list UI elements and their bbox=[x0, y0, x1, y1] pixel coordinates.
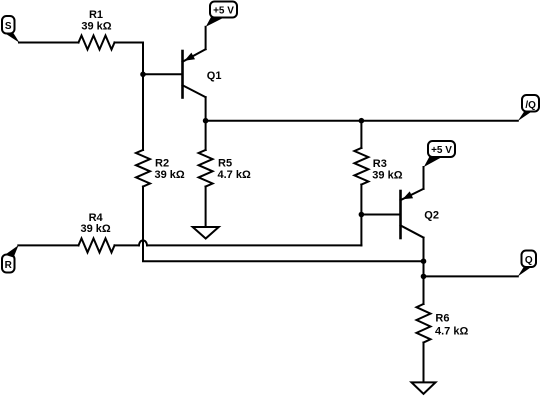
wire to Q2 base bbox=[361, 214, 400, 216]
svg-text:R2: R2 bbox=[155, 158, 169, 170]
wire riser R4 line to Q2 base junction bbox=[360, 215, 362, 246]
svg-text:/Q: /Q bbox=[525, 100, 536, 111]
wire hop over vertical wire bbox=[139, 240, 147, 245]
wire Q2 emitter to +5V bbox=[423, 167, 425, 189]
transistor Q2 (PNP) bbox=[401, 189, 424, 238]
wire R to R4 bbox=[18, 244, 78, 246]
svg-text:R: R bbox=[5, 260, 13, 271]
resistor R3 bbox=[354, 148, 368, 185]
node Q (output flag) bbox=[518, 251, 536, 277]
wire Q1 collector down to /Q node bbox=[205, 97, 207, 121]
wire Q1 emitter to +5V bbox=[205, 27, 207, 49]
wire R6 to ground bbox=[423, 343, 425, 383]
svg-text:+5 V: +5 V bbox=[431, 145, 452, 156]
wire R4 to hop bbox=[115, 244, 140, 246]
junction Q net bbox=[421, 274, 427, 280]
svg-text:Q: Q bbox=[525, 255, 533, 266]
svg-text:R6: R6 bbox=[435, 313, 449, 325]
wire R2 bottom cross-couple to Q2 collector bbox=[143, 187, 424, 262]
wire /Q net horizontal bbox=[206, 120, 518, 122]
wire R3 top lead bbox=[360, 121, 362, 148]
power flag +5 V (Q1 emitter) bbox=[206, 2, 237, 27]
svg-text:R4: R4 bbox=[89, 212, 104, 224]
junction Q1 collector //Q net bbox=[203, 118, 209, 124]
junction R3 top on /Q net bbox=[359, 118, 365, 124]
resistor R6 bbox=[417, 304, 431, 343]
svg-text:4.7 kΩ: 4.7 kΩ bbox=[435, 326, 468, 338]
wire /Q node to R5 bbox=[205, 121, 207, 150]
wire Q net horizontal bbox=[424, 275, 518, 277]
svg-text:R1: R1 bbox=[89, 9, 103, 21]
transistor Q1 (PNP) bbox=[183, 49, 206, 97]
svg-text:39 kΩ: 39 kΩ bbox=[155, 169, 185, 181]
node S (input flag) bbox=[2, 16, 20, 43]
wire R1 to base node corner bbox=[115, 43, 144, 75]
resistor R4 bbox=[79, 238, 115, 252]
svg-text:39 kΩ: 39 kΩ bbox=[81, 21, 111, 33]
wire Q2 collector down bbox=[423, 238, 425, 262]
svg-text:39 kΩ: 39 kΩ bbox=[372, 170, 402, 182]
node /Q (output flag) bbox=[518, 95, 539, 121]
svg-text:S: S bbox=[5, 21, 12, 32]
svg-text:39 kΩ: 39 kΩ bbox=[80, 223, 110, 235]
wire Q2 collector between junctions bbox=[423, 261, 425, 276]
junction node Q1 base bbox=[140, 72, 146, 78]
wire Q node to R6 bbox=[423, 276, 425, 304]
svg-text:R3: R3 bbox=[373, 158, 387, 170]
junction Q2 collector cross-couple bbox=[421, 258, 427, 264]
svg-text:+5 V: +5 V bbox=[213, 6, 234, 17]
svg-text:R5: R5 bbox=[218, 158, 232, 170]
node R (input flag) bbox=[2, 245, 19, 272]
wire hop to Q2 base riser bbox=[147, 244, 361, 246]
svg-text:Q2: Q2 bbox=[424, 210, 439, 222]
ground symbol (R6) bbox=[412, 382, 436, 394]
wire R3 bottom to Q2 base junction bbox=[360, 185, 362, 215]
wire S to R1 bbox=[19, 42, 79, 44]
wire to Q1 base bbox=[143, 73, 183, 75]
wire base node to R2 bbox=[142, 74, 144, 150]
ground symbol (R5) bbox=[193, 227, 219, 239]
resistor R2 bbox=[136, 150, 150, 187]
junction node Q2 base bbox=[359, 212, 365, 218]
resistor R1 bbox=[79, 36, 115, 50]
svg-text:Q1: Q1 bbox=[207, 70, 222, 82]
wire R5 to ground bbox=[205, 187, 207, 228]
power flag +5 V (Q2 emitter) bbox=[424, 141, 455, 167]
resistor R5 bbox=[199, 150, 213, 187]
svg-text:4.7 kΩ: 4.7 kΩ bbox=[218, 169, 251, 181]
